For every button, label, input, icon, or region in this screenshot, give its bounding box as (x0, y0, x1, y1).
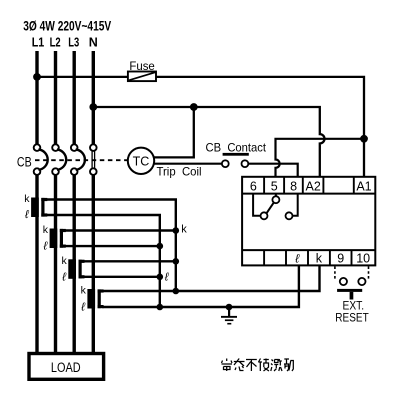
wire CT1 l lead to l bus (46, 215, 160, 307)
wire CT2 k lead (65, 229, 176, 231)
relay internal wire from 8 (293, 194, 298, 216)
relay U1 outer box (242, 177, 375, 266)
wire L2 vertical upper (54, 51, 57, 144)
wire N to A2 (with hop over 5-wire line) (93, 107, 324, 177)
node junction dot CT2 l (157, 243, 164, 250)
wire CB mechanical dashed link (35, 159, 127, 161)
relay internal lever 5-6 (266, 203, 273, 214)
wire CT3 k lead (83, 260, 176, 262)
breaker pole L1 contacts (34, 144, 48, 175)
wire L3 vertical lower (73, 175, 76, 353)
relay internal wire from 5 (275, 194, 277, 197)
wire L1 vertical upper (35, 51, 38, 144)
CT3 secondary bracket (79, 260, 85, 263)
wire L1 to fuse segment (37, 76, 128, 78)
node junction dot L1/fuse line (33, 73, 41, 81)
svg-text:Trip Coil: Trip Coil (157, 165, 202, 179)
svg-text:CB: CB (17, 154, 32, 169)
svg-text:k: k (181, 224, 187, 236)
relay internal contact circle 6 (261, 212, 268, 219)
reset button actuator bar (337, 289, 362, 292)
svg-text:ℓ: ℓ (80, 302, 85, 314)
LOAD box (29, 354, 104, 380)
wire fuse to A1 (right corner down) (156, 77, 364, 177)
node junction dot CT3 l (157, 274, 164, 281)
CT2 primary bar (50, 229, 58, 249)
CT3 primary bar (68, 259, 76, 279)
relay internal contact circle 5 (272, 196, 279, 203)
wire CT2 l lead (65, 245, 160, 247)
breaker pole N contacts (90, 144, 97, 175)
wire N vertical lower (92, 175, 95, 353)
CT4 primary bar (87, 289, 95, 309)
svg-text:3Ø 4W 220V~415V: 3Ø 4W 220V~415V (23, 19, 111, 34)
relay bottom terminal dividers (264, 250, 351, 265)
svg-text:ℓ: ℓ (43, 241, 48, 253)
svg-text:k: k (24, 193, 30, 205)
relay bottom terminal row line (242, 249, 375, 251)
svg-text:9: 9 (337, 251, 344, 265)
wire N vertical upper (92, 51, 95, 144)
svg-text:k: k (81, 285, 87, 297)
node junction dot N line (89, 103, 97, 111)
note text (CJK) drawn as strokes (222, 359, 294, 372)
CB contact right circle (242, 160, 249, 167)
relay internal wire from 6 (253, 194, 260, 216)
wire CB contact to terminal 8 (248, 164, 297, 177)
wire L3 vertical upper (73, 51, 76, 144)
wire L1 vertical lower (35, 175, 38, 353)
char 态 (234, 359, 245, 371)
trip coil TC circle (128, 148, 154, 174)
svg-text:k: k (43, 224, 49, 236)
svg-text:N: N (89, 36, 98, 50)
CT4 secondary bracket (98, 289, 104, 292)
fuse F1 diagonal (129, 72, 155, 80)
svg-text:CB Contact: CB Contact (206, 140, 267, 154)
pin 10 dashed lead (368, 266, 370, 278)
relay top terminal row line (242, 193, 375, 195)
wire L2 vertical lower (54, 175, 57, 353)
wire CT1 k lead to k bus (46, 200, 176, 292)
svg-text:A1: A1 (356, 180, 371, 194)
fuse F1 body (128, 72, 156, 82)
breaker pole L2 contacts (52, 144, 66, 175)
node junction dot l bus bottom (157, 304, 164, 311)
svg-text:5: 5 (271, 180, 278, 194)
reset button right contact (358, 278, 365, 285)
pin 9 dashed lead (334, 266, 336, 278)
char 激 (271, 359, 282, 371)
node junction dot A1 line (360, 135, 368, 143)
wire CT4 k lead to relay k (102, 265, 319, 291)
svg-text:L3: L3 (68, 36, 79, 50)
svg-text:8: 8 (290, 180, 297, 194)
svg-text:L2: L2 (50, 36, 61, 50)
svg-text:LOAD: LOAD (51, 360, 81, 375)
svg-text:ℓ: ℓ (24, 209, 29, 221)
svg-text:TC: TC (133, 155, 150, 169)
svg-text:ℓ: ℓ (61, 272, 66, 284)
char 不 (246, 360, 257, 372)
svg-text:10: 10 (356, 251, 370, 265)
node junction dot k bus bottom (173, 288, 180, 295)
CB contact actuator bar (223, 153, 249, 156)
wire CT3 l lead (83, 276, 160, 278)
svg-text:k: k (316, 251, 323, 265)
CT2 secondary bracket (60, 229, 66, 232)
relay top terminal dividers (264, 177, 354, 194)
CT1 secondary bracket (41, 198, 47, 201)
ground symbol (221, 307, 237, 325)
svg-text:ℓ: ℓ (164, 272, 169, 284)
CB contact left circle (222, 160, 229, 167)
char 常 (222, 359, 233, 372)
svg-text:k: k (62, 255, 68, 267)
reset button left contact (340, 278, 347, 285)
CT1 primary bar (31, 198, 39, 218)
node junction dot CT2 k (173, 227, 180, 234)
node junction dot ground tap (226, 304, 233, 311)
wire trip coil tap down (154, 107, 194, 157)
reset button stem (350, 292, 354, 300)
wire TC to CB contact (154, 163, 222, 165)
wire A1/contact common line (276, 139, 364, 177)
node junction dot trip-coil tap (190, 103, 198, 111)
node junction dot CT3 k (173, 258, 180, 265)
svg-text:A2: A2 (306, 180, 321, 194)
relay internal contact circle 8 (286, 212, 293, 219)
char 被 (258, 359, 269, 372)
char 励 (284, 359, 293, 371)
breaker pole L3 contacts (71, 144, 85, 175)
wire CT4 l lead to relay l (102, 265, 299, 307)
svg-text:L1: L1 (32, 36, 45, 50)
svg-text:RESET: RESET (335, 310, 369, 324)
svg-text:6: 6 (250, 180, 257, 194)
